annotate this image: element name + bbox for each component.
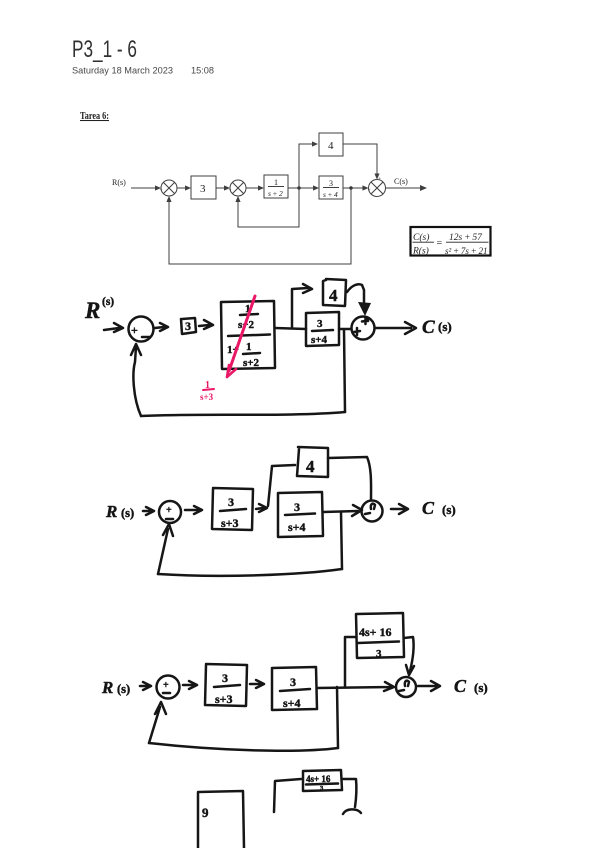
summing junction H3 [159,501,181,523]
svg-text:R(s): R(s) [112,178,126,187]
wire H1 to block 3 [155,323,168,331]
svg-text:=: = [437,238,443,249]
wire H4 to C(s) [391,504,408,514]
block 3/(s+4) (handwritten) [278,492,323,537]
svg-text:+: + [160,188,163,194]
block 4 [319,133,343,156]
svg-text:+: + [163,680,169,691]
wire branch up into block (4s+16)/3 [345,637,356,687]
wire outer feedback node B to S1 [169,188,351,264]
wire H6 to C(s) [418,681,440,691]
block 1/(s+2) [264,175,288,198]
wire block down toward summer (cut off) [342,779,356,807]
wire feedback loop H4 back to H3 [341,512,342,569]
node C(s) label (handwritten) [422,317,452,338]
svg-text:C: C [422,498,435,518]
svg-text:3: 3 [294,500,300,514]
block 9/... (cut off) [198,791,244,848]
block 3/(s+3) (handwritten) [205,664,247,706]
wire branch up into block (4s+16)/3 [274,779,301,812]
block 3/(s+4) (handwritten) [306,312,339,346]
node B (branch after 3/(s+4)) [349,186,352,189]
svg-text:9: 9 [202,805,209,820]
wire node A up to block 4 [299,144,314,188]
summing junction S2 [229,180,247,204]
wire H2 to C(s) output [375,322,416,334]
svg-text:+: + [378,176,381,182]
svg-text:3: 3 [228,495,234,509]
summer arc (cut off at page bottom) [343,809,361,814]
wire 3/(s+4) to summer H2 [339,328,351,331]
wire H3 to block 3/(s+3) [185,506,202,514]
block (4s+16)/3 (handwritten) [356,613,404,660]
summing junction H4 [362,501,383,522]
summing junction S3 [368,176,386,197]
svg-text:s+4: s+4 [288,520,306,534]
wire big block output [275,328,306,329]
node A (branch after 1/(s+2)) [297,186,300,189]
wire 3/(s+3) to 3/(s+4) [250,680,264,688]
svg-text:Saturday 18 March 2023: Saturday 18 March 2023 [72,66,173,77]
svg-text:4: 4 [306,457,315,476]
wire into summer H5 [140,682,151,690]
pink strike-through annotation [229,296,255,371]
svg-text:s+3: s+3 [221,516,239,530]
svg-text:1: 1 [274,178,278,187]
wire block 3 to big fraction block [199,320,213,329]
svg-text:3: 3 [290,675,296,689]
node C(s) label [422,498,456,518]
summing junction H1 [129,317,154,342]
svg-text:3: 3 [317,318,323,330]
block 3/(s+4) [319,176,343,199]
wire 1/(s+2) to block 3/(s+4) [288,187,316,189]
summing junction H6 [396,677,416,697]
svg-text:(s): (s) [474,680,488,695]
svg-text:(s): (s) [121,506,134,520]
wire 3/(s+4) to summer H4 [323,505,362,516]
wire into summer H3 [143,507,154,515]
svg-text:s+3: s+3 [215,692,233,706]
wire block 3/(s+3) output arrow [256,504,267,512]
pink fraction 1/(s+3) [200,380,214,402]
wire block (4s+16)/3 down to summer H6 [404,637,414,675]
wire feedback loop H2 back to H1 [344,330,345,412]
block 4 (handwritten) [297,447,328,477]
svg-text:R: R [84,298,100,323]
wire 3/(s+4) to summer H6 [317,682,394,691]
svg-text:4: 4 [328,140,334,152]
svg-text:P3_1 - 6: P3_1 - 6 [72,36,137,63]
wire block 4 down into summer H2 [347,284,364,303]
wire branch up to block 4 [292,284,312,328]
svg-text:s² + 7s + 21: s² + 7s + 21 [445,246,488,256]
wire R(s) to summer S1 [131,187,158,189]
wire S3 to output C(s) [386,187,424,189]
block 3 (handwritten) [181,318,196,334]
svg-text:4s+ 16: 4s+ 16 [306,774,331,784]
wire block 3 to summer S2 [216,187,227,189]
svg-text:+: + [166,505,172,516]
wire S2 to block 1/(s+2) [246,187,261,189]
svg-text:+: + [229,188,232,194]
node C(s) label [454,676,488,696]
block 4 (handwritten) [323,279,346,306]
block (4s+16)/3 small (handwritten) [303,770,342,792]
svg-text:R(s): R(s) [412,246,429,257]
svg-text:15:08: 15:08 [191,66,214,77]
svg-text:+: + [368,188,371,194]
block 3/(s+3) (handwritten) [212,488,253,530]
svg-text:4s+ 16: 4s+ 16 [359,625,392,639]
svg-text:s+3: s+3 [200,392,214,402]
wire branch up to block 4 [268,465,295,506]
node R(s) label [105,502,134,521]
svg-text:12s + 57: 12s + 57 [449,233,483,243]
svg-text:s+2: s+2 [243,357,260,369]
wire S1 to block 3 [177,187,188,189]
wire feedback loop H6 back to H5 [337,687,338,748]
svg-text:3: 3 [222,671,228,685]
svg-text:s + 4: s + 4 [323,190,338,199]
summing junction H5 [157,676,180,699]
wire arrow into summer H1 [104,323,123,332]
wire block 4 to summer H4 [328,457,371,500]
wire block 4 down to summer S3 [343,144,377,176]
svg-text:s+4: s+4 [311,334,328,346]
node R(s) label (handwritten) [84,296,114,323]
svg-text:C: C [422,317,435,338]
svg-text:s + 2: s + 2 [268,189,283,198]
svg-text:4: 4 [329,286,338,305]
block (1/(s+2))/(1+1/(s+2)) [221,301,275,369]
svg-text:(s): (s) [442,502,456,517]
svg-text:C: C [454,676,467,696]
summing junction S1 [160,180,178,204]
svg-text:s+4: s+4 [283,696,301,710]
svg-text:1: 1 [246,341,252,353]
node R(s) label [101,678,130,697]
svg-text:R: R [105,502,117,521]
svg-text:3: 3 [200,183,206,195]
svg-text:3: 3 [376,648,382,660]
summing junction H2 [352,317,375,340]
svg-text:+: + [131,323,138,337]
block 3/(s+4) (handwritten) [272,667,317,710]
wire H5 to block 3/(s+3) [183,681,197,689]
wire inner feedback node A to S2 [238,188,299,227]
block 3 [191,176,216,199]
svg-text:(s): (s) [438,319,452,334]
svg-text:C(s): C(s) [413,232,429,243]
svg-text:Tarea 6:: Tarea 6: [80,111,109,122]
svg-text:R: R [101,678,113,697]
wire 3/(s+4) to summer S3 [343,187,366,189]
svg-text:(s): (s) [117,682,130,696]
svg-text:C(s): C(s) [394,177,408,186]
svg-text:3: 3 [185,319,191,333]
svg-text:3: 3 [329,179,333,188]
svg-text:(s): (s) [102,296,114,308]
